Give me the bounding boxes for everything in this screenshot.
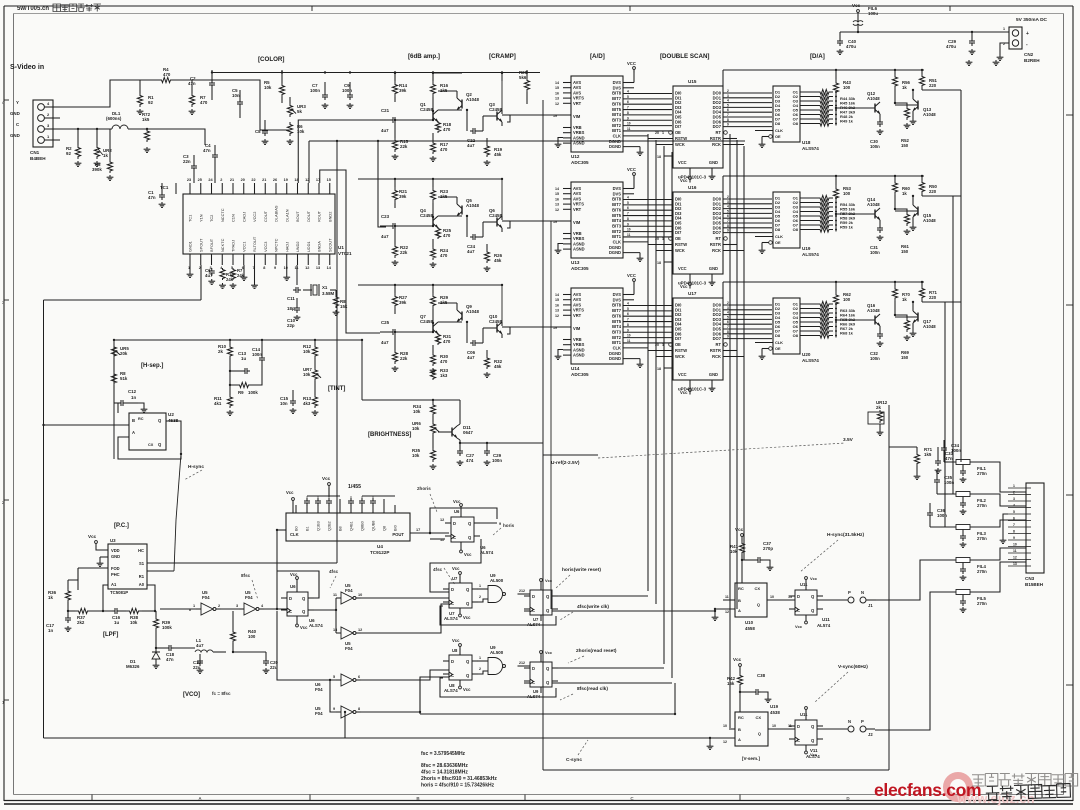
svg-text:1: 1 xyxy=(479,584,481,588)
svg-text:1k: 1k xyxy=(48,595,53,600)
svg-text:1k: 1k xyxy=(902,85,907,90)
svg-text:TC5081P: TC5081P xyxy=(110,590,128,595)
power vcc U9 ALS74 second xyxy=(540,651,543,654)
svg-text:BIT1: BIT1 xyxy=(612,340,622,345)
resistor R39 100k xyxy=(153,617,158,630)
wire amp output to ADC xyxy=(501,122,503,126)
svg-text:O8: O8 xyxy=(793,333,799,338)
svg-text:DVS: DVS xyxy=(613,191,622,196)
svg-text:C11: C11 xyxy=(287,296,295,301)
wire U2 B input xyxy=(43,424,129,426)
wire V-sync to FIL5 xyxy=(875,592,948,730)
svg-text:1k5: 1k5 xyxy=(142,117,150,122)
svg-text:100n: 100n xyxy=(310,88,320,93)
svg-text:39k: 39k xyxy=(399,88,407,93)
svg-text:PHC: PHC xyxy=(111,572,120,577)
wire cluster out 1 xyxy=(552,595,648,597)
svg-text:5: 5 xyxy=(627,95,629,99)
svg-text:5k: 5k xyxy=(297,109,302,114)
svg-text:OE: OE xyxy=(775,346,781,351)
svg-text:2k2: 2k2 xyxy=(77,620,85,625)
transistor Q4 C2458 xyxy=(432,218,434,227)
svg-text:fsc = 3.579545MHz: fsc = 3.579545MHz xyxy=(421,751,466,757)
svg-text:OE: OE xyxy=(675,236,681,241)
dashed leader H-sync xyxy=(800,540,838,572)
svg-text:92: 92 xyxy=(148,100,153,105)
svg-text:WCK: WCK xyxy=(675,142,685,147)
svg-text:Vcc: Vcc xyxy=(452,638,460,643)
svg-text:13: 13 xyxy=(333,628,337,632)
svg-text:1: 1 xyxy=(479,656,481,660)
svg-text:BND2: BND2 xyxy=(327,212,332,222)
wire output rail y=70 xyxy=(723,69,924,71)
svg-text:AL574: AL574 xyxy=(817,623,831,628)
svg-text:4: 4 xyxy=(627,196,629,200)
svg-text:3: 3 xyxy=(1013,497,1015,501)
U1 pin bottom BNDA xyxy=(318,254,320,265)
svg-text:WCK: WCK xyxy=(675,354,685,359)
svg-text:2horis = 8fsc/910 = 31.46853kH: 2horis = 8fsc/910 = 31.46853kHz xyxy=(421,776,497,782)
svg-text:DVS: DVS xyxy=(613,85,622,90)
svg-text:47n: 47n xyxy=(188,81,196,86)
capacitor C30 100n xyxy=(879,114,881,119)
svg-text:100: 100 xyxy=(843,191,851,196)
svg-text:4k3: 4k3 xyxy=(303,401,311,406)
svg-text:100k: 100k xyxy=(248,390,258,395)
svg-text:elecfans.com: elecfans.com xyxy=(874,780,981,800)
resistor R29 1k5 xyxy=(430,293,435,309)
svg-text:9: 9 xyxy=(727,229,729,233)
ground CN3 pins xyxy=(1003,514,1008,538)
wire ADC input row3 xyxy=(510,326,560,328)
svg-text:ASND: ASND xyxy=(573,141,585,146)
svg-text:C23: C23 xyxy=(381,214,390,219)
svg-text:25: 25 xyxy=(198,178,202,182)
svg-text:BIT4: BIT4 xyxy=(612,218,622,223)
svg-text:270p: 270p xyxy=(763,546,773,551)
transistor Q12 A1048 xyxy=(874,104,876,113)
svg-text:4558: 4558 xyxy=(745,626,755,631)
wire Y input xyxy=(60,80,158,107)
wire U10 inputs xyxy=(723,599,735,601)
resistor ladder R44-R49 xyxy=(816,89,833,94)
svg-text:BIT2: BIT2 xyxy=(612,335,622,340)
svg-text:DVS: DVS xyxy=(613,297,622,302)
svg-text:DI7: DI7 xyxy=(675,230,682,235)
wire clock bus vertical 4 xyxy=(671,152,673,678)
resistor R71 220 xyxy=(919,286,924,300)
svg-text:13: 13 xyxy=(555,309,559,313)
svg-text:VCC: VCC xyxy=(678,160,687,165)
wire U12 DVS vcc stubs xyxy=(623,82,634,84)
resistor R18 470 xyxy=(435,121,440,133)
wire power rail xyxy=(858,31,1009,33)
svg-text:ASND: ASND xyxy=(573,247,585,252)
svg-text:QUB8: QUB8 xyxy=(372,521,376,531)
svg-text:4u7: 4u7 xyxy=(381,234,389,239)
svg-text:2horis(read reset): 2horis(read reset) xyxy=(576,648,617,654)
svg-text:11: 11 xyxy=(627,339,631,343)
capacitor C29 470u xyxy=(971,32,973,38)
svg-text:19: 19 xyxy=(553,220,557,224)
svg-text:9: 9 xyxy=(1013,536,1015,540)
wire U19 inputs xyxy=(729,728,735,730)
ground near C29 top xyxy=(968,60,970,62)
svg-text:DGND: DGND xyxy=(609,250,621,255)
svg-text:15k: 15k xyxy=(727,681,735,686)
svg-text:BIT6: BIT6 xyxy=(612,101,622,106)
wire U3 A0 down xyxy=(147,585,155,611)
svg-text:18p: 18p xyxy=(287,306,295,311)
svg-text:5: 5 xyxy=(333,675,335,679)
dashed leader V-sync xyxy=(815,672,848,702)
svg-text:DI7: DI7 xyxy=(675,124,682,129)
connector CN3 body xyxy=(1026,483,1044,573)
svg-text:A: A xyxy=(738,608,741,613)
svg-text:D: D xyxy=(453,521,456,526)
svg-text:16: 16 xyxy=(555,91,559,95)
svg-text:B2REH: B2REH xyxy=(1024,58,1040,63)
svg-text:RSTR: RSTR xyxy=(710,242,721,247)
svg-text:10k: 10k xyxy=(412,426,420,431)
wire U3 S1 R1 to sync xyxy=(147,562,337,564)
amp cell wires y=226 xyxy=(380,225,392,227)
svg-text:45k: 45k xyxy=(494,152,502,157)
svg-text:23: 23 xyxy=(187,178,191,182)
resistor R26 45k xyxy=(484,250,489,263)
transistor Q2 A1048 xyxy=(461,100,463,109)
svg-text:10: 10 xyxy=(723,724,727,728)
svg-text:Vcc: Vcc xyxy=(545,578,553,583)
resistor R69 150 xyxy=(904,318,909,332)
svg-text:5k6: 5k6 xyxy=(519,75,527,80)
wire DAC output G to filter xyxy=(952,196,954,490)
svg-text:uPD42101C-3: uPD42101C-3 xyxy=(678,175,707,180)
svg-text:BIT1: BIT1 xyxy=(612,128,622,133)
wire brightness feed corner xyxy=(361,340,363,400)
svg-text:CLK: CLK xyxy=(775,340,783,345)
svg-text:B0: B0 xyxy=(295,526,299,531)
wire cluster out 1 xyxy=(552,667,664,669)
svg-text:100n: 100n xyxy=(937,513,947,518)
latch U18 ALS574 xyxy=(773,86,800,142)
svg-text:F04: F04 xyxy=(345,588,353,593)
svg-text:DLABIAS: DLABIAS xyxy=(274,205,279,222)
capacitor C20 22u xyxy=(265,658,267,661)
svg-text:4fsc = 14.31818MHz: 4fsc = 14.31818MHz xyxy=(421,770,468,776)
wire 4fsc line into U10 xyxy=(656,610,715,612)
svg-text:D8: D8 xyxy=(775,227,781,232)
svg-text:20: 20 xyxy=(655,131,659,135)
svg-text:2: 2 xyxy=(1013,491,1015,495)
svg-text:A1048: A1048 xyxy=(466,309,479,314)
power vcc V11 xyxy=(805,707,808,710)
svg-text:[H-sep.]: [H-sep.] xyxy=(141,363,163,369)
svg-text:C1N: C1N xyxy=(231,214,236,222)
svg-text:D8: D8 xyxy=(775,121,781,126)
svg-text:Vcc: Vcc xyxy=(463,687,471,692)
svg-text:14: 14 xyxy=(555,293,559,297)
svg-text:R59 1k: R59 1k xyxy=(840,225,854,230)
svg-text:C12: C12 xyxy=(128,389,137,394)
svg-text:12: 12 xyxy=(555,102,559,106)
svg-text:10: 10 xyxy=(627,122,631,126)
svg-text:BIT5: BIT5 xyxy=(612,319,622,324)
svg-text:2k: 2k xyxy=(218,349,223,354)
svg-text:2: 2 xyxy=(727,195,729,199)
svg-text:VDD: VDD xyxy=(111,548,120,553)
svg-text:CLK: CLK xyxy=(290,532,299,537)
wire ADC input row1 xyxy=(510,114,560,116)
wire U3 A1 down xyxy=(103,585,108,611)
U1 pin top DLABIAS xyxy=(275,183,277,194)
svg-text:O8: O8 xyxy=(793,227,799,232)
svg-text:10: 10 xyxy=(627,228,631,232)
svg-text:H-sync(31.5kHz): H-sync(31.5kHz) xyxy=(827,532,864,538)
svg-text:BNDA: BNDA xyxy=(317,241,322,252)
resistor R24 470 xyxy=(430,247,435,260)
U1 pin bottom SPOUT xyxy=(200,254,202,265)
svg-text:[LPF]: [LPF] xyxy=(103,632,118,638)
svg-text:4538: 4538 xyxy=(770,710,780,715)
svg-text:19: 19 xyxy=(284,178,288,182)
svg-text:10k: 10k xyxy=(412,453,420,458)
svg-text:BIT7: BIT7 xyxy=(612,96,622,101)
svg-text:5: 5 xyxy=(627,307,629,311)
svg-text:GND: GND xyxy=(111,554,120,559)
wire right loop vertical xyxy=(888,405,890,770)
U1 pin top TC2 xyxy=(211,183,213,194)
resistor R70 1k xyxy=(892,286,897,301)
wire U1 column vertical xyxy=(336,141,338,563)
svg-text:51k: 51k xyxy=(120,376,128,381)
wire analog output y=90 xyxy=(921,88,923,90)
svg-text:OE: OE xyxy=(775,240,781,245)
svg-text:5: 5 xyxy=(727,315,729,319)
svg-text:7: 7 xyxy=(727,325,729,329)
svg-text:VRT: VRT xyxy=(573,313,582,318)
latch U19 ALS574 xyxy=(773,192,800,248)
svg-text:15: 15 xyxy=(555,192,559,196)
inverter U5 F04 sixth xyxy=(341,706,353,718)
svg-text:212: 212 xyxy=(519,589,525,593)
resistor R9 100k xyxy=(236,382,252,387)
U1 pin top DLA1N xyxy=(286,183,288,194)
svg-text:U6: U6 xyxy=(290,584,296,589)
svg-text:8: 8 xyxy=(358,707,360,711)
svg-text:U1: U1 xyxy=(338,245,344,250)
svg-text:U10: U10 xyxy=(745,620,754,625)
svg-text:A: A xyxy=(132,430,135,435)
U1 pin bottom HADJ xyxy=(286,254,288,265)
svg-text:BIT2: BIT2 xyxy=(612,123,622,128)
svg-text:100: 100 xyxy=(248,634,256,639)
wire clock bus vertical 3 xyxy=(663,146,665,664)
svg-text:U16: U16 xyxy=(688,185,697,190)
svg-text:Q1B3: Q1B3 xyxy=(317,521,321,531)
wire H-sync to phase comparator xyxy=(176,454,181,520)
flip-flop U9 ALS74 second xyxy=(530,662,552,687)
border zone ticks bottom xyxy=(91,795,93,801)
svg-text:Q: Q xyxy=(758,731,761,736)
resistor R25 470 xyxy=(435,227,440,239)
svg-text:390k: 390k xyxy=(92,167,102,172)
svg-text:U15: U15 xyxy=(688,79,697,84)
svg-text:RSTR: RSTR xyxy=(710,136,721,141)
wire gate inputs xyxy=(477,660,488,662)
svg-text:[CRAMP]: [CRAMP] xyxy=(489,53,516,60)
svg-text:BIT6: BIT6 xyxy=(612,313,622,318)
wire analog output y=196 xyxy=(921,194,923,196)
svg-text:100k: 100k xyxy=(162,625,172,630)
svg-text:U7: U7 xyxy=(452,576,458,581)
svg-text:7: 7 xyxy=(627,106,629,110)
svg-text:BOUT: BOUT xyxy=(295,211,300,222)
wire U3 inputs xyxy=(78,567,108,569)
resistor R6 10k xyxy=(287,122,292,136)
svg-text:ASND: ASND xyxy=(573,353,585,358)
jumper J2 xyxy=(817,728,848,730)
svg-text:15: 15 xyxy=(327,178,331,182)
svg-text:12: 12 xyxy=(723,740,727,744)
svg-text:470: 470 xyxy=(443,233,451,238)
wire hsep feed vertical xyxy=(113,340,115,459)
resistor R27 39k xyxy=(392,293,397,309)
svg-text:9: 9 xyxy=(727,123,729,127)
wire U13 CLK stub xyxy=(623,241,648,243)
svg-text:CLK: CLK xyxy=(613,134,621,139)
svg-text:13: 13 xyxy=(555,203,559,207)
svg-text:O8: O8 xyxy=(793,121,799,126)
wire vco loop top xyxy=(276,561,278,609)
flip-flop U8 ALS74 xyxy=(449,655,472,680)
svg-text:11: 11 xyxy=(1013,549,1017,553)
svg-text:220: 220 xyxy=(929,295,937,300)
svg-text:VT021: VT021 xyxy=(338,251,352,256)
resistor R21b 24k under U1 xyxy=(220,268,225,280)
wire left rail to U7 inputs xyxy=(419,677,421,714)
svg-text:B4BEH: B4BEH xyxy=(30,156,46,161)
svg-text:R1: R1 xyxy=(139,574,145,579)
svg-text:4: 4 xyxy=(627,302,629,306)
svg-text:V-sync(60Hz): V-sync(60Hz) xyxy=(838,664,868,670)
svg-text:270n: 270n xyxy=(977,503,987,508)
svg-text:2: 2 xyxy=(479,595,481,599)
svg-text:8: 8 xyxy=(627,217,629,221)
svg-text:RSTW: RSTW xyxy=(675,136,687,141)
transistor Q15 A1048 xyxy=(917,207,919,216)
wire inverter6 out xyxy=(361,677,449,712)
resistor R22 22k xyxy=(392,244,397,258)
wire U10 out to U11 xyxy=(767,599,795,601)
svg-text:U19: U19 xyxy=(770,704,779,709)
ground Q17 collector xyxy=(912,323,914,331)
resistor R37 2k2 LPF xyxy=(75,608,91,613)
watermark ring logo xyxy=(947,776,970,799)
svg-text:D: D xyxy=(289,596,292,601)
svg-text:22k: 22k xyxy=(400,356,408,361)
svg-text:5: 5 xyxy=(727,103,729,107)
svg-text:GND: GND xyxy=(10,133,20,138)
svg-text:9: 9 xyxy=(627,328,629,332)
oneshot U19 4538 vertical sync xyxy=(735,712,768,746)
wire U13 DVS vcc stubs xyxy=(623,188,634,190)
svg-text:P: P xyxy=(848,590,851,595)
svg-text:BIT4: BIT4 xyxy=(612,324,622,329)
svg-text:11: 11 xyxy=(627,127,631,131)
wire cluster loop under xyxy=(440,678,556,697)
svg-text:CADJ: CADJ xyxy=(241,212,246,222)
svg-text:Vcc: Vcc xyxy=(286,490,294,495)
svg-text:4u7: 4u7 xyxy=(467,249,475,254)
svg-text:ALS574: ALS574 xyxy=(802,146,819,151)
svg-text:10k: 10k xyxy=(413,409,421,414)
svg-text:GND1: GND1 xyxy=(188,241,193,252)
svg-text:[BRIGHTNESS]: [BRIGHTNESS] xyxy=(368,432,411,438)
svg-text:D: D xyxy=(451,659,454,664)
resistor R30 470 xyxy=(430,353,435,366)
wire clock bus vertical 2 xyxy=(655,140,657,604)
jumper J1 xyxy=(817,599,848,601)
svg-text:10n: 10n xyxy=(280,401,288,406)
svg-text:DO7: DO7 xyxy=(713,336,722,341)
svg-text:22: 22 xyxy=(251,178,255,182)
svg-text:CLK: CLK xyxy=(775,234,783,239)
svg-text:F04: F04 xyxy=(202,595,210,600)
svg-text:5: 5 xyxy=(627,201,629,205)
wire output rail y=176 xyxy=(723,175,924,177)
wire brightness output xyxy=(457,438,460,440)
ground U12 left pins xyxy=(558,138,563,143)
svg-text:4: 4 xyxy=(727,311,729,315)
EMI filter FIL3 270n xyxy=(948,526,980,528)
flip-flop V11 AL574 xyxy=(795,720,817,745)
svg-text:21: 21 xyxy=(230,178,234,182)
U1 pin bottom GND1 xyxy=(189,254,191,265)
svg-text:Q8B0: Q8B0 xyxy=(361,521,365,531)
svg-text:150: 150 xyxy=(901,355,909,360)
svg-text:VIM: VIM xyxy=(573,114,581,119)
svg-text:1: 1 xyxy=(1013,484,1015,488)
svg-text:N: N xyxy=(861,590,864,595)
svg-text:BIT3: BIT3 xyxy=(612,223,622,228)
svg-text:D: D xyxy=(797,724,800,729)
svg-text:BI0: BI0 xyxy=(394,525,398,531)
wire vco feedback xyxy=(160,608,196,610)
wire horis down xyxy=(430,539,481,592)
svg-text:47n: 47n xyxy=(166,657,174,662)
svg-text:VCC2: VCC2 xyxy=(252,212,257,222)
svg-text:47n: 47n xyxy=(148,195,156,200)
svg-text:45k: 45k xyxy=(494,258,502,263)
svg-text:16: 16 xyxy=(555,303,559,307)
svg-text:U-ref(2-2.5V): U-ref(2-2.5V) xyxy=(551,460,580,466)
resistor R15 22k xyxy=(392,138,397,152)
capacitor C06 4u7 xyxy=(470,342,473,344)
svg-text:D: D xyxy=(532,666,535,671)
svg-text:GND: GND xyxy=(10,111,20,116)
ground U13 DGND xyxy=(623,252,640,254)
U4 top pin network xyxy=(295,505,297,513)
wire U1 right outputs up xyxy=(298,120,380,183)
svg-text:CX: CX xyxy=(148,443,154,447)
capacitor C29 100n xyxy=(486,448,488,451)
svg-text:100: 100 xyxy=(843,297,851,302)
svg-text:270n: 270n xyxy=(977,471,987,476)
svg-text:0647: 0647 xyxy=(463,430,473,435)
svg-text:CLK: CLK xyxy=(775,128,783,133)
resistor R43 100 xyxy=(833,79,838,96)
